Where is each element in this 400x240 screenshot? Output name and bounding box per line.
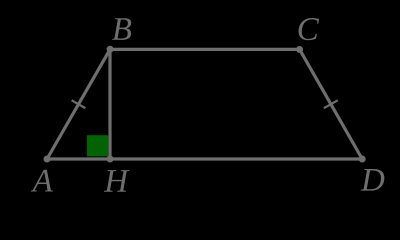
node C [296, 46, 303, 53]
label C [299, 18, 319, 40]
wire side AB [47, 49, 110, 159]
node H [107, 156, 114, 163]
wire side CD [300, 49, 363, 159]
label D [361, 169, 385, 191]
node B [107, 46, 114, 53]
right-angle square at H [87, 135, 108, 156]
node A [44, 156, 51, 163]
label B [112, 18, 131, 40]
tick mark on AB [72, 100, 86, 108]
wire side BC [110, 48, 300, 51]
wire side DA [47, 157, 362, 160]
label A [31, 170, 53, 192]
wire altitude BH [108, 49, 111, 159]
label H [104, 170, 130, 192]
node D [359, 156, 366, 163]
tick mark on CD [324, 100, 338, 108]
